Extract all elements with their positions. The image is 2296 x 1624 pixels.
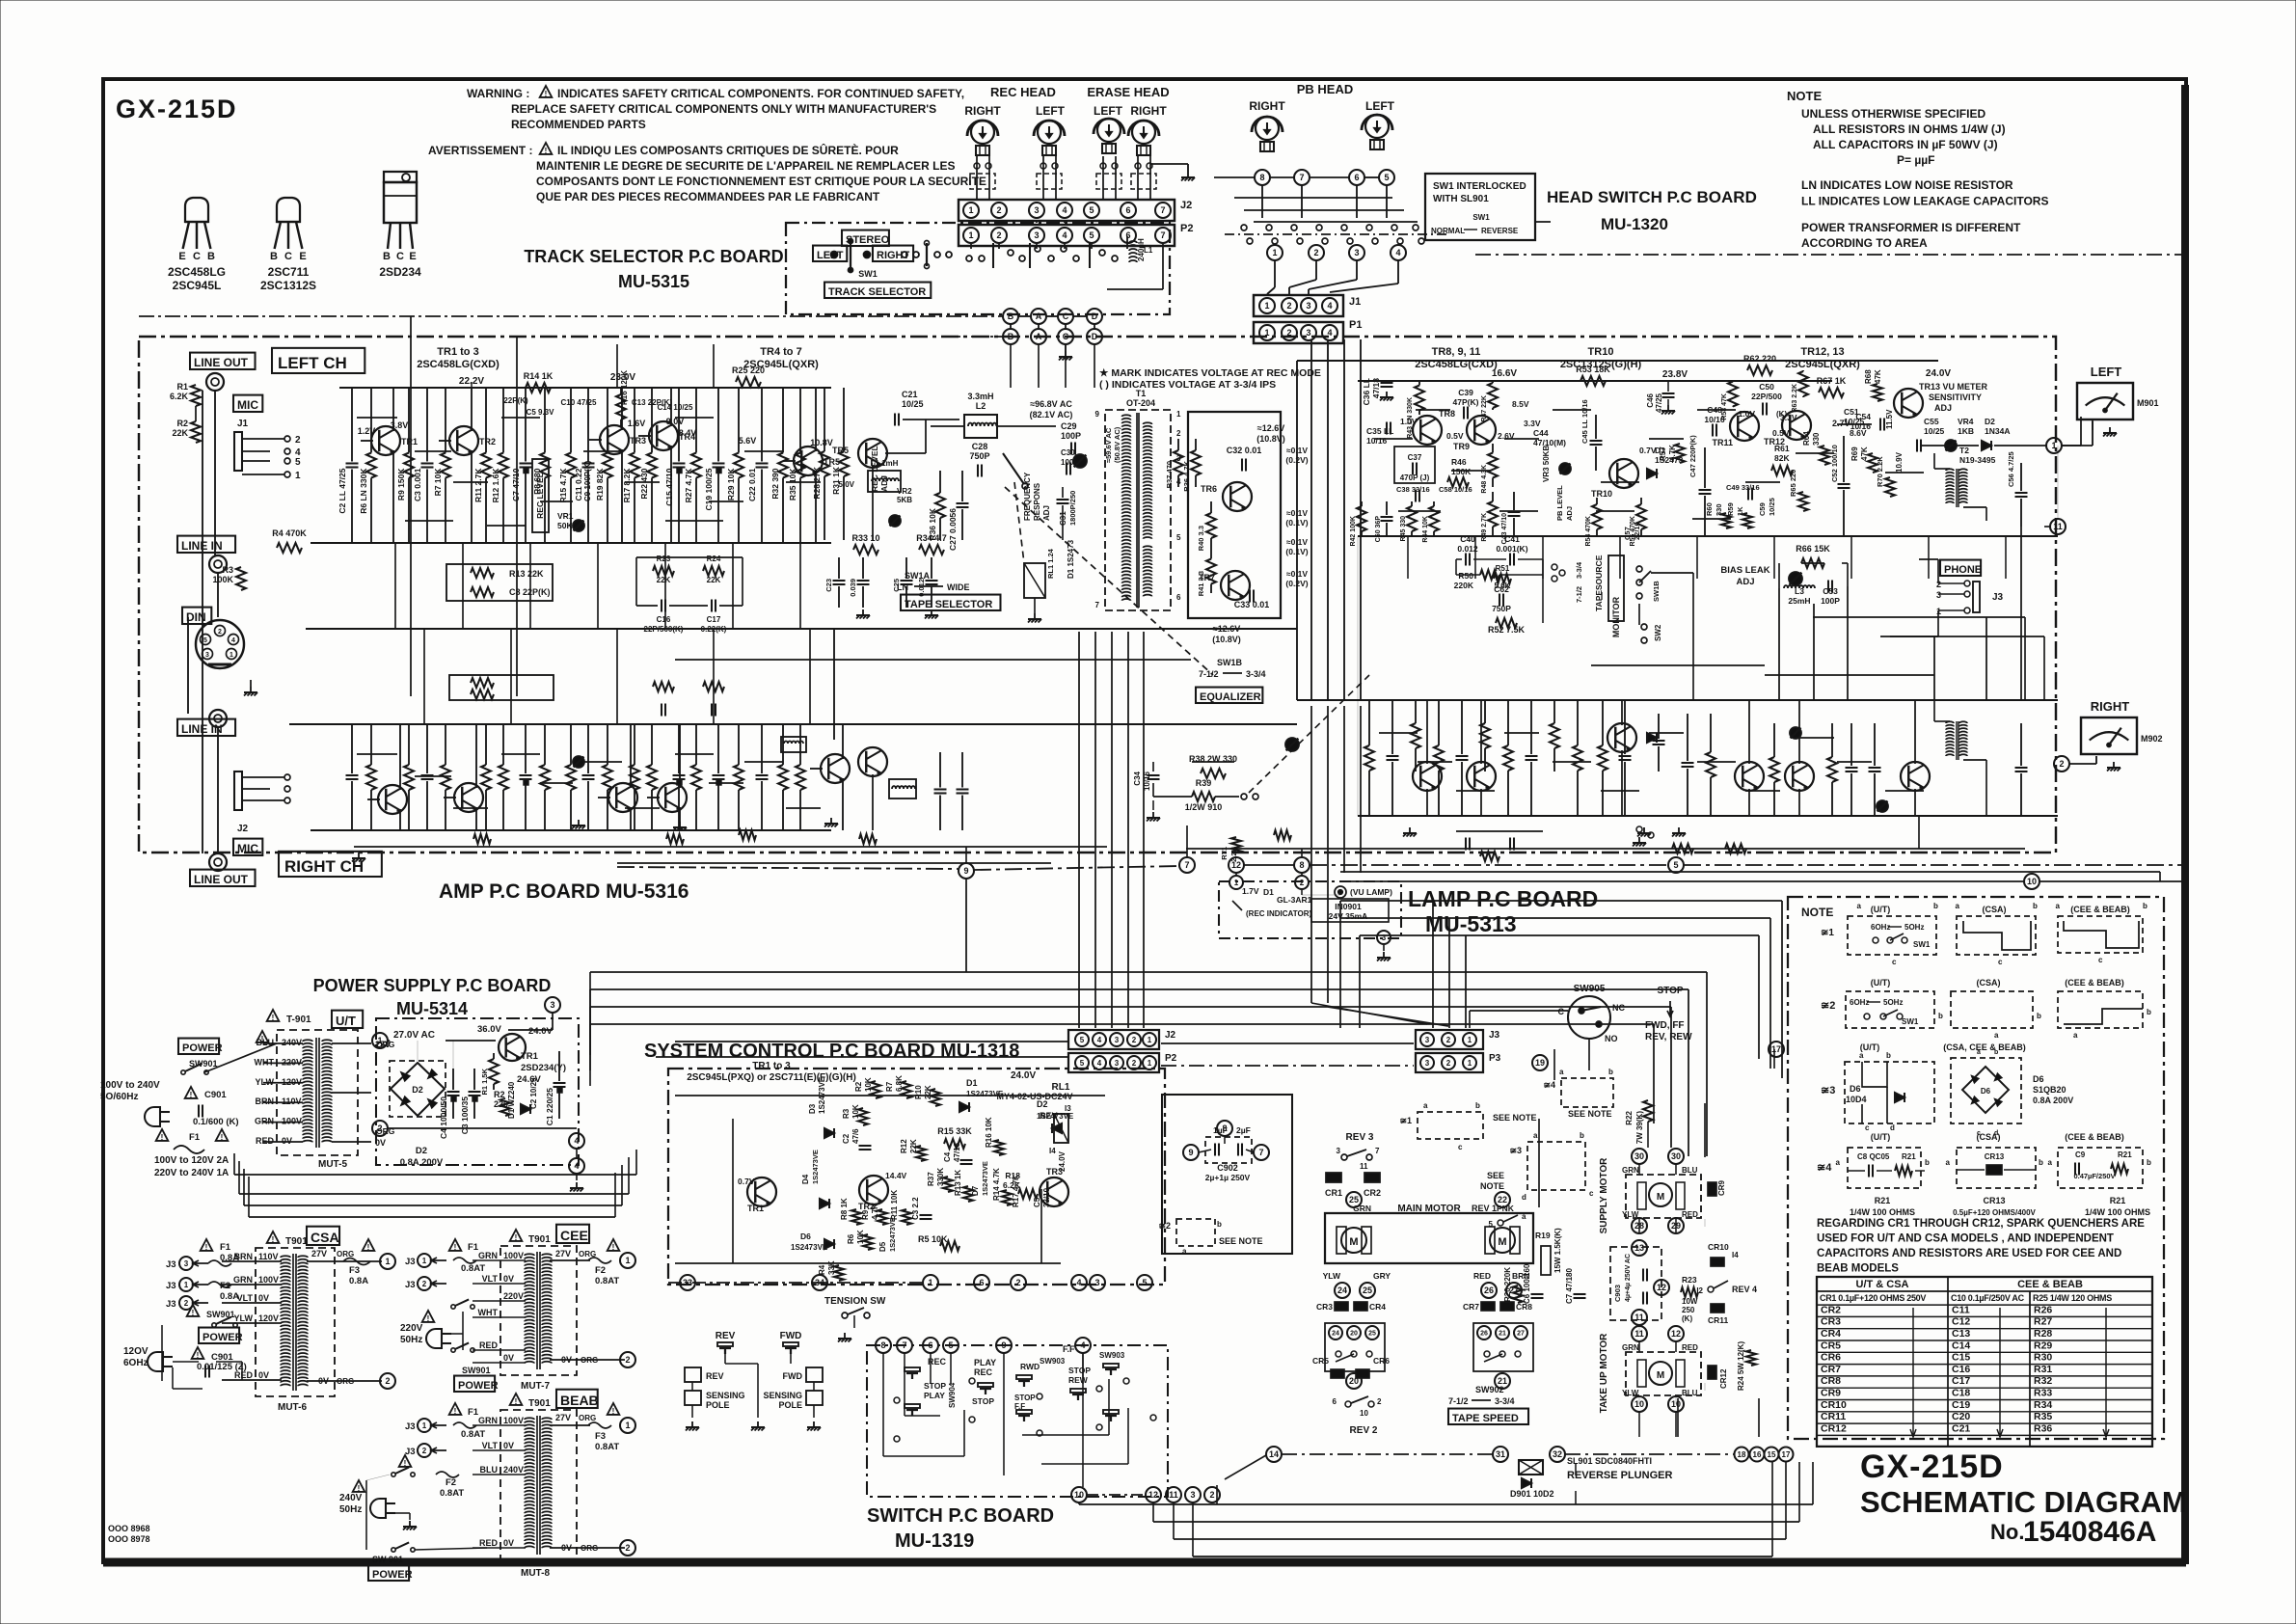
svg-text:6OHz: 6OHz xyxy=(1871,923,1890,932)
transistor xyxy=(658,783,687,812)
svg-text:MAINTENIR LE DEGRE DE SECU: MAINTENIR LE DEGRE DE SECURITE DE L'APPA… xyxy=(536,159,955,173)
svg-text:≆2: ≆2 xyxy=(1821,1000,1835,1012)
svg-text:2: 2 xyxy=(184,1299,189,1308)
svg-text:5OHz: 5OHz xyxy=(1904,923,1924,932)
ground tension sw xyxy=(844,1333,846,1339)
svg-text:R26: R26 xyxy=(2034,1304,2052,1315)
svg-text:10W: 10W xyxy=(1682,1297,1698,1306)
wire switch board to motors xyxy=(1225,1455,1266,1479)
svg-text:5.0V: 5.0V xyxy=(839,480,855,489)
svg-text:P= µµF: P= µµF xyxy=(1897,153,1935,167)
potentiometer right bottom xyxy=(1877,800,1888,812)
label TAPE SELECTOR xyxy=(901,595,1000,610)
svg-text:ADJ: ADJ xyxy=(1565,506,1574,521)
svg-text:R61: R61 xyxy=(1774,444,1790,453)
resistor R12 xyxy=(502,388,504,453)
resistor R19 xyxy=(607,388,608,453)
ground lamp xyxy=(1383,945,1385,951)
svg-text:FWD, FF: FWD, FF xyxy=(1645,1020,1685,1031)
svg-text:R46: R46 xyxy=(1451,457,1467,467)
svg-text:0.8A: 0.8A xyxy=(220,1253,239,1263)
svg-text:3: 3 xyxy=(550,1000,554,1010)
note panel outline xyxy=(1788,897,2164,1439)
wire inter-channel vertical 865 xyxy=(833,629,835,740)
svg-text:(U/T): (U/T) xyxy=(1871,1132,1891,1142)
label LINE IN top xyxy=(177,536,235,553)
svg-text:(CEE & BEAB): (CEE & BEAB) xyxy=(2065,978,2124,988)
svg-text:CR3: CR3 xyxy=(1821,1316,1841,1328)
resistor R2 22K xyxy=(191,421,201,443)
svg-text:R41 3.3: R41 3.3 xyxy=(1197,571,1205,596)
svg-text:0V: 0V xyxy=(258,1370,269,1380)
capacitor C24 0.039 xyxy=(862,557,864,579)
svg-text:30: 30 xyxy=(1671,1151,1681,1161)
resistor R xyxy=(651,724,653,765)
terminal 5 amp bottom xyxy=(1668,857,1684,873)
capacitor C23 0.015 xyxy=(838,557,840,579)
svg-text:R2: R2 xyxy=(854,1081,863,1092)
svg-text:RIGHT: RIGHT xyxy=(964,104,1001,118)
wire motor section links xyxy=(1553,1049,1555,1080)
resistor R4 470K xyxy=(277,543,302,553)
svg-text:LEFT CH: LEFT CH xyxy=(278,354,347,372)
svg-text:(10.8V): (10.8V) xyxy=(1212,635,1241,644)
svg-text:C50: C50 xyxy=(1759,382,1774,392)
transistor TR3 xyxy=(600,425,629,454)
svg-text:c: c xyxy=(1458,1143,1463,1151)
svg-text:a: a xyxy=(1994,1031,1999,1040)
resistor R27 xyxy=(695,388,697,453)
svg-text:C13: C13 xyxy=(1952,1328,1970,1340)
transistor TR6 xyxy=(1223,482,1252,511)
svg-text:F1: F1 xyxy=(468,1407,479,1418)
svg-text:82K: 82K xyxy=(1774,453,1790,463)
wire sys control rails xyxy=(675,1095,1105,1096)
svg-text:24: 24 xyxy=(1337,1286,1347,1295)
svg-text:27.0V AC: 27.0V AC xyxy=(393,1030,435,1041)
svg-text:2SC458LG(CXD): 2SC458LG(CXD) xyxy=(417,359,500,370)
svg-text:(CSA, CEE & BEAB): (CSA, CEE & BEAB) xyxy=(1943,1042,2026,1052)
potentiometer right ch vr xyxy=(1285,738,1299,751)
svg-text:1/4W 100 OHMS: 1/4W 100 OHMS xyxy=(1850,1207,1915,1217)
svg-text:SW1: SW1 xyxy=(1902,1017,1919,1026)
svg-text:SEE: SEE xyxy=(1487,1171,1504,1180)
svg-text:110V: 110V xyxy=(258,1252,279,1261)
resistor R xyxy=(370,724,372,765)
lamp IN0901 box xyxy=(1311,899,1389,922)
connector J2 strip xyxy=(959,200,1175,221)
transistor TR10 xyxy=(1609,459,1638,488)
resistor R36b 4.7K xyxy=(1195,439,1197,450)
svg-text:D5: D5 xyxy=(878,1241,887,1252)
svg-text:CEE: CEE xyxy=(560,1228,588,1243)
svg-text:0.039: 0.039 xyxy=(849,579,857,597)
label LINE OUT top xyxy=(190,353,256,369)
svg-text:F3: F3 xyxy=(595,1431,606,1442)
lamp VU LAMP xyxy=(1335,886,1346,898)
note row1 UT box xyxy=(1848,916,1936,955)
svg-text:SW902: SW902 xyxy=(1475,1385,1504,1394)
svg-text:MU-1320: MU-1320 xyxy=(1601,215,1668,233)
svg-text:RIGHT: RIGHT xyxy=(1130,104,1167,118)
terminal 1 CEE xyxy=(620,1253,635,1268)
svg-text:9: 9 xyxy=(1188,1148,1193,1157)
svg-text:12: 12 xyxy=(1148,1490,1158,1500)
switch SW901 CSA xyxy=(187,1305,200,1316)
capacitor right bottom c1 xyxy=(1658,714,1660,739)
resistor network right ch box xyxy=(449,675,554,700)
svg-text:★ MARK INDICATES VOLTAGE AT: ★ MARK INDICATES VOLTAGE AT REC MODE xyxy=(1099,367,1321,379)
svg-text:WHT: WHT xyxy=(478,1308,499,1317)
svg-text:1: 1 xyxy=(295,471,301,481)
svg-text:MU-5314: MU-5314 xyxy=(396,999,468,1018)
svg-text:47K: 47K xyxy=(1874,369,1882,384)
svg-text:6: 6 xyxy=(1125,205,1130,215)
svg-text:C: C xyxy=(284,251,292,262)
svg-text:C10 47/25: C10 47/25 xyxy=(561,398,597,407)
svg-text:CR2: CR2 xyxy=(1364,1188,1381,1198)
svg-text:EQUALIZER: EQUALIZER xyxy=(1200,691,1261,703)
ground RL1 xyxy=(1034,598,1036,613)
svg-text:D1 1S2473: D1 1S2473 xyxy=(1067,539,1075,579)
svg-text:SW 901: SW 901 xyxy=(372,1555,403,1564)
resistor R32 xyxy=(782,388,784,453)
svg-text:CSA: CSA xyxy=(311,1230,339,1245)
fuse F1 CSA xyxy=(201,1239,213,1251)
svg-text:NC: NC xyxy=(1612,1003,1625,1013)
svg-text:STOP: STOP xyxy=(972,1396,994,1406)
svg-text:YLW: YLW xyxy=(256,1077,275,1087)
svg-text:≆1: ≆1 xyxy=(1399,1116,1412,1125)
svg-text:ORG: ORG xyxy=(579,1414,596,1422)
terminal 3 ps xyxy=(545,997,560,1013)
svg-text:0.8A 200V: 0.8A 200V xyxy=(400,1157,444,1168)
svg-text:100V: 100V xyxy=(282,1117,302,1126)
capacitor C901 UT xyxy=(185,1087,198,1098)
svg-text:R32: R32 xyxy=(2034,1375,2052,1387)
svg-text:7-1/2: 7-1/2 xyxy=(1575,586,1583,603)
svg-text:5: 5 xyxy=(1089,205,1094,215)
svg-text:VLT: VLT xyxy=(237,1293,254,1303)
wire J2P2 drops to track selector xyxy=(970,221,972,223)
svg-text:REC LEVEL: REC LEVEL xyxy=(535,473,545,519)
label LEFT CH xyxy=(272,348,365,373)
wire leads xyxy=(679,724,681,788)
svg-text:COMPOSANTS DONT LE FONCTION: COMPOSANTS DONT LE FONCTIONNEMENT EST CR… xyxy=(536,175,986,188)
resistor R34 4.7 xyxy=(919,545,944,555)
inductor L2b right ch xyxy=(781,737,806,752)
svg-text:REPLACE SAFETY CRITICAL COM: REPLACE SAFETY CRITICAL COMPONENTS ONLY … xyxy=(511,102,936,116)
svg-text:5.6K: 5.6K xyxy=(1495,582,1511,590)
svg-text:!: ! xyxy=(161,1133,164,1142)
svg-text:LN: LN xyxy=(897,582,908,592)
svg-text:b: b xyxy=(1608,1068,1613,1076)
svg-text:LAMP P.C BOARD: LAMP P.C BOARD xyxy=(1408,886,1598,911)
capacitor C37 470P xyxy=(1394,447,1435,483)
svg-text:b: b xyxy=(2039,1158,2043,1167)
transformer T-901 U/T xyxy=(277,1030,358,1155)
svg-text:ACCORDING TO AREA: ACCORDING TO AREA xyxy=(1801,236,1928,250)
wire T2 loop xyxy=(1934,468,1950,470)
wire right ch rail extension xyxy=(289,723,339,725)
svg-text:C54: C54 xyxy=(1855,412,1871,421)
svg-text:NORMAL: NORMAL xyxy=(1431,227,1465,235)
capacitor C7 xyxy=(525,388,527,462)
svg-text:a: a xyxy=(1522,1212,1526,1221)
svg-text:a: a xyxy=(1977,1049,1981,1056)
wire bias to bottom channel verticals xyxy=(1813,604,1815,700)
svg-text:1.2V: 1.2V xyxy=(358,426,376,436)
svg-text:SENSING: SENSING xyxy=(706,1391,745,1400)
ground ps xyxy=(576,1174,578,1180)
svg-text:18: 18 xyxy=(1738,1450,1746,1459)
capacitor C60 36P xyxy=(1386,501,1388,515)
svg-text:REV: REV xyxy=(706,1371,724,1381)
svg-text:SW1 INTERLOCKED: SW1 INTERLOCKED xyxy=(1433,181,1526,192)
svg-text:RED: RED xyxy=(1682,1210,1698,1219)
wire right ch bus xyxy=(311,829,831,831)
svg-text:C17: C17 xyxy=(1952,1375,1970,1387)
pb head wiring mesh xyxy=(1261,185,1263,218)
svg-text:D: D xyxy=(1092,311,1098,321)
svg-text:J3: J3 xyxy=(166,1281,176,1291)
svg-text:M902: M902 xyxy=(2141,734,2163,744)
svg-text:2: 2 xyxy=(1132,1036,1137,1044)
svg-text:(CEE & BEAB): (CEE & BEAB) xyxy=(2065,1132,2124,1142)
svg-text:2: 2 xyxy=(625,1543,630,1553)
wire left ch bus xyxy=(311,542,831,544)
label MIC bottom xyxy=(233,839,262,855)
wire ps internal xyxy=(387,1040,390,1042)
svg-text:3: 3 xyxy=(205,652,209,659)
wire R38 R39 loop xyxy=(1152,762,1154,771)
svg-text:C46: C46 xyxy=(1646,392,1655,407)
svg-text:250: 250 xyxy=(1682,1306,1695,1314)
wire tr5 region xyxy=(872,466,874,540)
svg-text:R7 10K: R7 10K xyxy=(433,468,443,497)
svg-text:b: b xyxy=(1886,1051,1891,1060)
svg-text:a: a xyxy=(1956,902,1960,910)
resistor R47 22K xyxy=(1492,381,1494,383)
label RIGHT CH xyxy=(279,852,382,877)
transistor right bottom TR9b xyxy=(1467,762,1496,791)
svg-text:a: a xyxy=(2056,902,2061,910)
svg-text:C21: C21 xyxy=(1952,1422,1970,1434)
svg-text:1: 1 xyxy=(422,1257,427,1265)
resistor R xyxy=(799,724,801,765)
wire right ch lower xyxy=(354,846,1107,848)
svg-text:3: 3 xyxy=(1936,590,1941,600)
svg-text:BRN: BRN xyxy=(256,1096,275,1106)
svg-text:T-901: T-901 xyxy=(286,1015,311,1025)
svg-text:TAKE UP MOTOR: TAKE UP MOTOR xyxy=(1599,1333,1609,1414)
svg-text:TR1 to 3: TR1 to 3 xyxy=(437,346,478,358)
svg-text:2: 2 xyxy=(377,1123,382,1133)
ground right bottom xyxy=(1643,827,1645,833)
svg-text:47/16: 47/16 xyxy=(953,1142,961,1162)
wire lamp feeds xyxy=(1235,873,1237,876)
svg-text:U/T & CSA: U/T & CSA xyxy=(1856,1279,1909,1290)
svg-text:IN0901: IN0901 xyxy=(1335,902,1362,911)
svg-text:!: ! xyxy=(454,1243,457,1252)
svg-text:100V: 100V xyxy=(503,1416,524,1425)
connector J1 strip xyxy=(1254,295,1343,316)
svg-text:R30: R30 xyxy=(2034,1352,2052,1364)
svg-text:R16 10K: R16 10K xyxy=(985,1117,993,1148)
svg-text:C45 LL 10/16: C45 LL 10/16 xyxy=(1580,399,1589,444)
svg-text:PB HEAD: PB HEAD xyxy=(1297,82,1354,96)
connector P1 strip xyxy=(1254,322,1343,343)
svg-text:LL INDICATES LOW LEAKAGE CA: LL INDICATES LOW LEAKAGE CAPACITORS xyxy=(1801,195,2048,208)
svg-text:D6: D6 xyxy=(800,1232,811,1241)
svg-text:B: B xyxy=(383,251,391,262)
wire harness nested bundle verticals xyxy=(233,1153,235,1175)
fuse F1 UT xyxy=(156,1129,169,1141)
svg-text:SENSING: SENSING xyxy=(763,1391,802,1400)
svg-text:!: ! xyxy=(221,1133,224,1142)
terminal row 24 25 26 27 xyxy=(1335,1283,1350,1298)
svg-text:7: 7 xyxy=(1184,860,1189,870)
svg-text:C58 10/16: C58 10/16 xyxy=(1439,485,1472,494)
svg-text:CR4: CR4 xyxy=(1821,1328,1841,1340)
svg-text:WARNING :: WARNING : xyxy=(467,87,529,100)
svg-text:3: 3 xyxy=(1354,248,1359,257)
svg-text:LN INDICATES LOW NOISE RESI: LN INDICATES LOW NOISE RESISTOR xyxy=(1801,178,2013,192)
svg-text:J1: J1 xyxy=(237,419,249,429)
note row1 CEE box xyxy=(2058,916,2143,953)
transistor TR13b xyxy=(1901,762,1930,791)
svg-text:CR7: CR7 xyxy=(1821,1364,1841,1375)
capacitor right ch out xyxy=(939,752,941,788)
svg-text:NOTE: NOTE xyxy=(1801,906,1833,919)
svg-text:R17 4.7K: R17 4.7K xyxy=(1012,1175,1020,1207)
svg-text:≈12.6V: ≈12.6V xyxy=(1257,423,1284,433)
svg-text:RIGHT: RIGHT xyxy=(2091,699,2130,714)
svg-text:LINE OUT: LINE OUT xyxy=(194,356,249,369)
svg-text:CR7: CR7 xyxy=(1463,1302,1479,1312)
svg-text:10: 10 xyxy=(1360,1409,1368,1418)
svg-text:R66 15K: R66 15K xyxy=(1796,544,1830,554)
svg-text:R6 LN 330K: R6 LN 330K xyxy=(359,468,368,514)
svg-text:12: 12 xyxy=(1671,1329,1681,1339)
svg-text:TR9: TR9 xyxy=(1453,442,1470,451)
svg-text:6.2K: 6.2K xyxy=(170,392,189,401)
svg-text:RL1 1.24: RL1 1.24 xyxy=(1046,548,1055,579)
svg-text:240V: 240V xyxy=(339,1493,363,1503)
svg-text:2SC711: 2SC711 xyxy=(268,265,310,279)
terminal 8 amp bottom xyxy=(1294,857,1310,873)
erase head right xyxy=(1132,121,1155,144)
svg-text:POWER SUPPLY P.C BOARD: POWER SUPPLY P.C BOARD xyxy=(313,976,552,995)
svg-text:C9: C9 xyxy=(2075,1150,2086,1159)
svg-text:11.5V: 11.5V xyxy=(1885,409,1894,429)
svg-text:J3: J3 xyxy=(166,1299,176,1310)
svg-text:RIGHT CH: RIGHT CH xyxy=(284,857,364,876)
svg-text:C14: C14 xyxy=(1952,1340,1970,1351)
svg-text:1: 1 xyxy=(422,1421,427,1430)
wire right ch supply rail xyxy=(339,723,831,725)
svg-text:D2: D2 xyxy=(1985,417,1995,426)
diode right bottom xyxy=(1647,733,1657,743)
label CSA taps xyxy=(222,1260,282,1262)
label LINE IN bottom xyxy=(177,719,235,736)
wire P2 to P3 dash-dot xyxy=(1161,1065,1414,1067)
svg-text:6OHz: 6OHz xyxy=(1850,998,1869,1007)
svg-text:C4 1000/50: C4 1000/50 xyxy=(439,1096,448,1139)
svg-text:26: 26 xyxy=(1480,1331,1488,1338)
svg-text:REVERSE: REVERSE xyxy=(1481,227,1519,235)
svg-text:(U/T): (U/T) xyxy=(1871,978,1891,988)
head switch SW1 box xyxy=(1425,174,1535,240)
fuse F3 CSA xyxy=(363,1239,375,1251)
resistor R67 1K xyxy=(1819,388,1844,397)
svg-text:1: 1 xyxy=(1234,879,1239,887)
svg-text:5: 5 xyxy=(1080,1036,1085,1044)
label POWER BEAB xyxy=(368,1565,409,1581)
svg-text:BLU: BLU xyxy=(480,1465,499,1475)
svg-text:J3: J3 xyxy=(405,1280,416,1290)
svg-text:AMP P.C BOARD MU-5316: AMP P.C BOARD MU-5316 xyxy=(439,880,689,903)
switch SW1 stereo selector contacts xyxy=(831,252,838,258)
wire right output loops xyxy=(1813,616,2025,618)
ground meter M901 xyxy=(2092,420,2093,430)
svg-text:≆2: ≆2 xyxy=(1158,1221,1171,1231)
svg-text:1/4W 100 OHMS: 1/4W 100 OHMS xyxy=(2085,1207,2150,1217)
svg-text:P2: P2 xyxy=(1180,223,1193,234)
svg-text:R5 10K: R5 10K xyxy=(918,1234,948,1244)
svg-text:R21: R21 xyxy=(2118,1150,2132,1159)
svg-text:TR3: TR3 xyxy=(630,436,646,446)
svg-text:NO: NO xyxy=(1605,1034,1618,1043)
svg-text:1: 1 xyxy=(377,1036,382,1045)
svg-text:5: 5 xyxy=(1089,230,1094,240)
jack line out bottom xyxy=(209,853,227,871)
svg-text:GRY: GRY xyxy=(1373,1271,1391,1281)
svg-text:24.0V: 24.0V xyxy=(1926,368,1951,379)
wire BEAB bottom xyxy=(365,1480,367,1550)
svg-text:REV 1: REV 1 xyxy=(1472,1204,1497,1213)
svg-text:2µ+1µ 250V: 2µ+1µ 250V xyxy=(1205,1173,1251,1182)
svg-text:100V: 100V xyxy=(503,1251,524,1260)
switch SW2 lower xyxy=(1641,624,1647,630)
svg-text:SOURCE: SOURCE xyxy=(1594,555,1604,590)
capacitor C1 220/25 xyxy=(558,1051,560,1081)
svg-text:(CSA): (CSA) xyxy=(1983,905,2007,914)
svg-text:R63 2.2K: R63 2.2K xyxy=(1792,384,1798,413)
inductor L2 3.3mH xyxy=(964,415,997,438)
svg-text:4: 4 xyxy=(1062,230,1067,240)
wire harness nested right returns xyxy=(1340,900,1782,902)
wire CEE plug xyxy=(451,1333,463,1335)
svg-text:1: 1 xyxy=(385,1257,390,1266)
switch SW901 UT xyxy=(181,1070,185,1074)
svg-text:D2: D2 xyxy=(1037,1099,1048,1109)
resistor R15 xyxy=(570,388,572,453)
svg-text:(K): (K) xyxy=(1776,410,1787,419)
svg-text:WITH SL901: WITH SL901 xyxy=(1433,194,1489,204)
bridge rectifier D2 UT xyxy=(390,1061,446,1117)
svg-text:!: ! xyxy=(197,1351,200,1360)
svg-text:ADJ: ADJ xyxy=(1736,577,1754,587)
svg-text:0.1/600 (K): 0.1/600 (K) xyxy=(193,1117,239,1127)
svg-text:C14 10/25: C14 10/25 xyxy=(658,403,693,412)
svg-text:VR1: VR1 xyxy=(557,511,574,521)
svg-text:S1QB20: S1QB20 xyxy=(2033,1085,2066,1095)
svg-text:0.8AT: 0.8AT xyxy=(440,1488,464,1499)
transistor TR8 xyxy=(1413,416,1442,445)
svg-text:3-3/4: 3-3/4 xyxy=(1575,561,1583,579)
switch SW901 BEAB xyxy=(392,1473,395,1476)
